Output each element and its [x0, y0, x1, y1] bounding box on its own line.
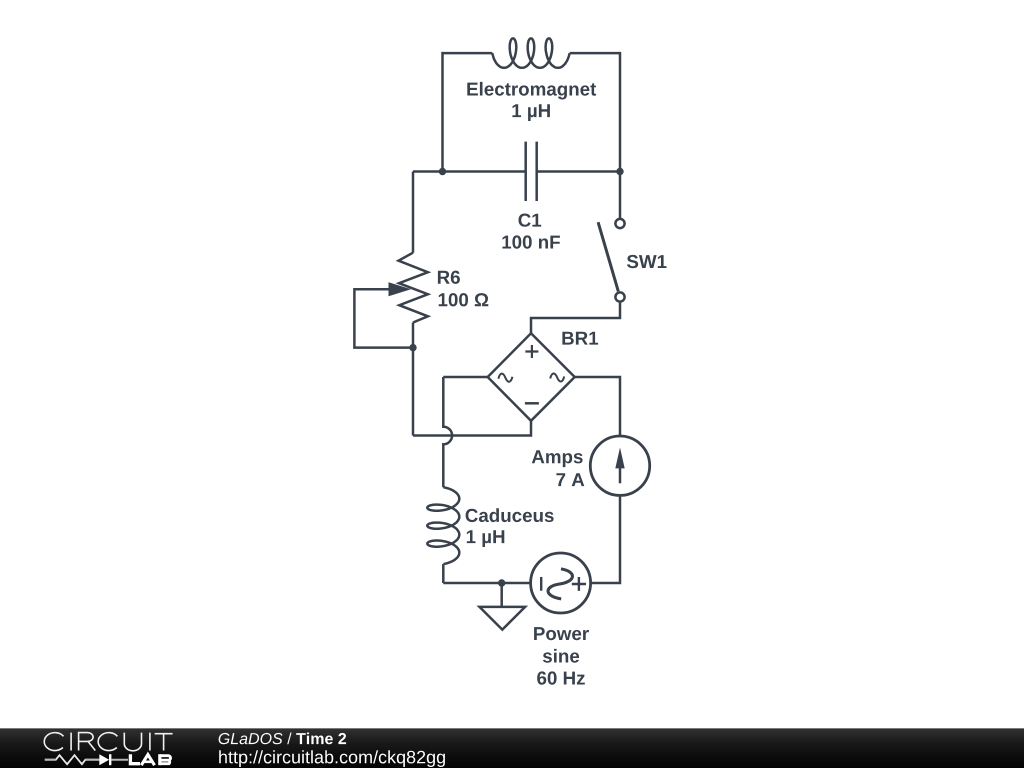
wire below current source [591, 495, 620, 583]
wire mid horizontal right of C1 [537, 170, 620, 173]
footer title Time 2 [296, 733, 346, 745]
label 60Hz [537, 671, 585, 684]
wire bottom horizontal to BR1 bottom vertex [413, 421, 531, 436]
footer bar [0, 728, 1024, 768]
junction dot R6 bottom [409, 344, 416, 351]
label Electromagnet [467, 82, 596, 100]
label Amps [532, 450, 583, 467]
resistor R6 zigzag [399, 253, 428, 323]
voltage source Power sine circle [531, 553, 591, 613]
wire left vertical with hop over bottom horizontal [443, 377, 452, 487]
label Caduceus [466, 508, 554, 522]
BR1 right AC squiggle [550, 373, 564, 381]
current source arrowhead [615, 448, 624, 469]
wire left vertical of top loop [441, 52, 444, 172]
current source Amps circle [590, 436, 649, 495]
logo diode triangle [99, 754, 109, 765]
wire switch top lead [619, 172, 622, 219]
wire bottom-left corner up to coil [442, 564, 445, 583]
BR1 minus sign [525, 402, 539, 405]
label 7A [556, 473, 584, 486]
voltage source minus bar [540, 577, 542, 591]
switch SW1 bottom terminal circle [615, 292, 624, 301]
footer author GLaDOS [219, 733, 283, 744]
wire right vertical of top loop [619, 52, 622, 172]
label SW1 [627, 255, 667, 268]
wiper arrowhead [389, 282, 412, 296]
wire R6 top lead [412, 172, 415, 253]
label Power [534, 627, 589, 640]
CircuitLab logo LAB [130, 754, 170, 765]
label BR1 [562, 332, 598, 345]
junction dot left of C1 [439, 168, 446, 175]
CircuitLab logo CIRCUIT [44, 733, 172, 751]
current source arrow shaft [619, 456, 622, 483]
inductor L2 Caduceus coil [427, 487, 459, 564]
junction dot ground [498, 579, 505, 586]
footer separator [287, 733, 291, 745]
junction dot right of C1 [616, 168, 623, 175]
footer url [219, 750, 445, 767]
voltage source plus sign [572, 577, 586, 591]
capacitor C1 right plate [535, 142, 538, 201]
label 1uH-top [512, 104, 550, 121]
wire BR1 left vertex horizontal [443, 376, 487, 379]
label C1 [519, 214, 542, 227]
BR1 left AC squiggle [498, 374, 512, 382]
wiper loop wire [354, 289, 413, 347]
wire power source left to corner [443, 582, 530, 585]
logo resistor-diode glyph [45, 754, 128, 765]
capacitor C1 left plate [524, 142, 527, 201]
label 100nF [502, 235, 560, 248]
wire R6 bottom lead [412, 323, 415, 348]
wire R6 bottom to corner [412, 348, 415, 436]
wire top-right horizontal [570, 52, 620, 55]
label 1uH-bottom [467, 530, 505, 547]
label 100ohm [439, 293, 489, 306]
label sine [543, 649, 579, 663]
ground triangle [480, 607, 526, 630]
wire BR1 right vertex to right rail [575, 377, 620, 436]
voltage source sine squiggle [548, 569, 572, 599]
switch SW1 blade [598, 222, 618, 291]
inductor L1 Electromagnet coil [492, 38, 569, 67]
wire mid horizontal left of C1 [413, 170, 526, 173]
switch SW1 top terminal circle [615, 219, 624, 228]
wire switch bottom lead [531, 303, 620, 334]
label R6 [438, 271, 460, 284]
ground stub [500, 583, 503, 607]
bridge rectifier BR1 diamond [488, 333, 575, 421]
BR1 plus sign [525, 345, 538, 358]
wire top-left horizontal [443, 52, 493, 55]
